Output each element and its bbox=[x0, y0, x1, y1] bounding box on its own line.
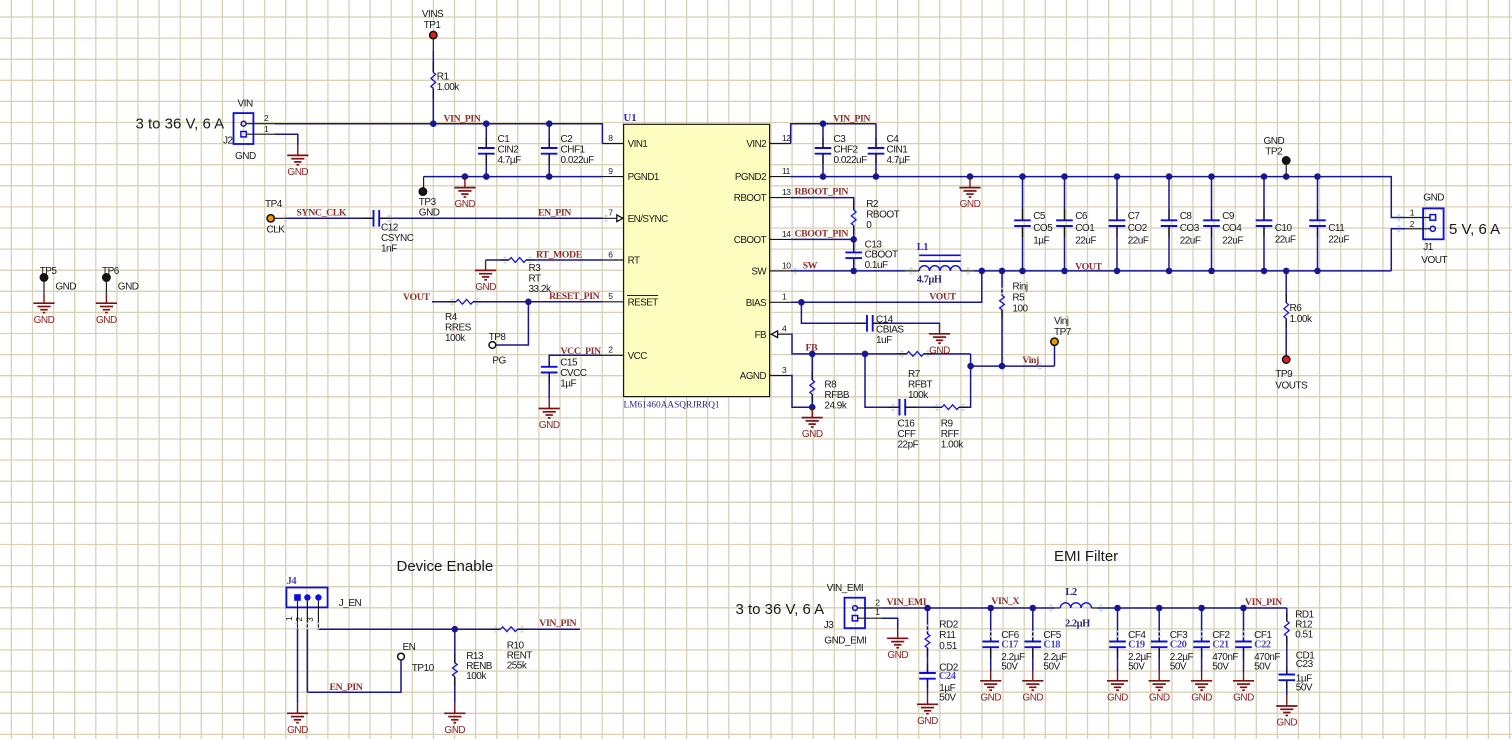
ground below R8 bbox=[811, 407, 813, 417]
capacitor C18 CF5 bbox=[1030, 605, 1037, 612]
svg-text:CVCC: CVCC bbox=[560, 368, 587, 379]
svg-text:255k: 255k bbox=[507, 661, 528, 672]
node marker bbox=[388, 215, 391, 222]
wire R1 to VIN rail bbox=[432, 88, 434, 123]
svg-text:FB: FB bbox=[755, 330, 767, 341]
node marker bbox=[1242, 631, 1245, 638]
wire lead bbox=[379, 217, 390, 219]
junction enable node bbox=[452, 626, 459, 633]
svg-text:VIN_X: VIN_X bbox=[991, 596, 1019, 607]
svg-text:CFF: CFF bbox=[898, 429, 916, 440]
capacitor C7 bbox=[1116, 177, 1118, 221]
U1 pin 5 RESET stub bbox=[602, 301, 623, 303]
capacitor C11 bbox=[1317, 177, 1319, 221]
svg-text:CHF2: CHF2 bbox=[834, 145, 859, 156]
svg-text:SW: SW bbox=[803, 261, 818, 272]
resistor R6 bbox=[1283, 268, 1290, 275]
svg-text:RT_MODE: RT_MODE bbox=[536, 249, 583, 260]
svg-text:Vinj: Vinj bbox=[1022, 355, 1039, 366]
svg-text:C9: C9 bbox=[1222, 211, 1235, 222]
ground below C20 bbox=[1158, 670, 1160, 680]
svg-text:GND: GND bbox=[960, 199, 981, 210]
svg-text:1nF: 1nF bbox=[381, 244, 397, 255]
svg-text:C12: C12 bbox=[381, 223, 399, 234]
connector J2 bbox=[234, 113, 254, 144]
node marker bbox=[1031, 631, 1034, 638]
svg-text:GND: GND bbox=[929, 345, 950, 356]
svg-text:GND: GND bbox=[1107, 692, 1128, 703]
J4 pin 2 wire bbox=[306, 601, 308, 629]
svg-text:3: 3 bbox=[782, 365, 787, 375]
resistor R9 RFF bbox=[942, 405, 959, 410]
svg-text:C20: C20 bbox=[1170, 639, 1187, 650]
svg-text:GND: GND bbox=[1233, 692, 1254, 703]
wire lead bbox=[853, 226, 855, 235]
svg-text:CLK: CLK bbox=[267, 225, 286, 236]
U1 pin 7 input arrow bbox=[617, 215, 623, 222]
svg-text:1µF: 1µF bbox=[560, 379, 576, 390]
wire AGND pin bbox=[791, 376, 813, 408]
ground below C21 bbox=[1201, 670, 1203, 680]
svg-text:2: 2 bbox=[875, 597, 880, 607]
U1 pin 6 RT stub bbox=[602, 259, 623, 261]
svg-text:TP2: TP2 bbox=[1265, 147, 1283, 158]
svg-text:EN_PIN: EN_PIN bbox=[330, 682, 363, 693]
wire lead bbox=[1158, 630, 1160, 642]
testpoint TP9 VOUTS bbox=[1283, 356, 1290, 363]
svg-text:VIN_PIN: VIN_PIN bbox=[1245, 597, 1282, 608]
node marker bbox=[605, 215, 608, 222]
resistor R2 RBOOT bbox=[851, 210, 856, 226]
node marker bbox=[910, 268, 913, 275]
svg-text:VINS: VINS bbox=[422, 9, 444, 20]
ground below J3 bbox=[897, 628, 899, 638]
wire lead bbox=[1211, 226, 1213, 237]
inductor L1 bbox=[919, 254, 961, 256]
svg-text:GND: GND bbox=[96, 315, 117, 326]
junction AGND node bbox=[809, 404, 816, 411]
svg-text:2: 2 bbox=[264, 113, 269, 123]
svg-text:GND: GND bbox=[1191, 692, 1212, 703]
ground below R13 bbox=[454, 703, 456, 713]
node marker bbox=[967, 268, 970, 275]
svg-text:PGND2: PGND2 bbox=[735, 172, 766, 183]
svg-text:EN: EN bbox=[403, 642, 416, 653]
svg-text:GND: GND bbox=[34, 315, 55, 326]
svg-text:R8: R8 bbox=[824, 380, 837, 391]
svg-text:J3: J3 bbox=[824, 620, 835, 631]
svg-text:GND: GND bbox=[419, 207, 440, 218]
wire lead bbox=[875, 138, 877, 148]
capacitor C14 CBIAS bbox=[866, 315, 868, 332]
ground at RT resistor bbox=[485, 260, 487, 270]
svg-text:13: 13 bbox=[782, 187, 791, 197]
svg-text:VOUTS: VOUTS bbox=[1275, 380, 1308, 391]
wire lead bbox=[500, 259, 509, 261]
svg-text:6: 6 bbox=[608, 249, 613, 259]
svg-text:22uF: 22uF bbox=[1222, 235, 1243, 246]
svg-text:50V: 50V bbox=[1170, 661, 1187, 672]
svg-text:22pF: 22pF bbox=[898, 440, 919, 451]
svg-text:VOUT: VOUT bbox=[1075, 261, 1102, 272]
wire R7 to Vinj node bbox=[971, 354, 1055, 366]
svg-text:RFBT: RFBT bbox=[908, 380, 933, 391]
wire lead bbox=[1001, 310, 1003, 318]
U1 pin 1 BIAS stub bbox=[770, 301, 791, 303]
wire EMI rail left bbox=[882, 607, 1055, 609]
svg-text:L2: L2 bbox=[1065, 587, 1077, 598]
wire lead bbox=[927, 664, 929, 673]
node marker bbox=[927, 351, 930, 358]
svg-text:C21: C21 bbox=[1212, 639, 1229, 650]
svg-text:C18: C18 bbox=[1043, 639, 1060, 650]
svg-text:RRES: RRES bbox=[445, 323, 472, 334]
wire lead bbox=[1022, 209, 1024, 220]
wire lead bbox=[1263, 209, 1265, 220]
wire lead bbox=[811, 372, 813, 380]
svg-text:50V: 50V bbox=[1254, 661, 1271, 672]
junction FB bbox=[809, 351, 816, 358]
svg-text:C3: C3 bbox=[834, 134, 847, 145]
svg-text:R7: R7 bbox=[908, 369, 921, 380]
wire lead bbox=[924, 353, 933, 355]
U1 pin 7 EN/SYNC stub bbox=[602, 217, 623, 219]
node marker bbox=[1398, 225, 1401, 232]
svg-text:0: 0 bbox=[866, 220, 872, 231]
svg-text:C2: C2 bbox=[561, 134, 574, 145]
wire lead bbox=[485, 138, 487, 148]
svg-text:VOUT: VOUT bbox=[1421, 255, 1447, 266]
resistor R12 RD1 chain bbox=[1286, 608, 1288, 621]
ground below TP6 bbox=[105, 293, 107, 303]
svg-text:GND: GND bbox=[55, 282, 76, 293]
node marker bbox=[495, 626, 498, 633]
J2 pin 2 stub bbox=[246, 123, 275, 125]
svg-text:VIN_EMI: VIN_EMI bbox=[887, 597, 927, 608]
svg-text:TP9: TP9 bbox=[1275, 369, 1293, 380]
U1 pin 4 FB arrow bbox=[772, 331, 778, 338]
svg-text:3 to 36 V, 6 A: 3 to 36 V, 6 A bbox=[136, 116, 225, 133]
svg-text:LM61460AASQRJRRQ1: LM61460AASQRJRRQ1 bbox=[624, 401, 720, 411]
J1 pin 2 stub bbox=[1405, 228, 1430, 230]
svg-text:0.022uF: 0.022uF bbox=[834, 155, 868, 166]
wire lead bbox=[1317, 209, 1319, 220]
resistor R7 RFBT bbox=[865, 353, 907, 355]
wire lead bbox=[927, 625, 929, 634]
svg-text:RFF: RFF bbox=[941, 429, 959, 440]
svg-text:100k: 100k bbox=[445, 333, 466, 344]
svg-text:RD2: RD2 bbox=[939, 619, 958, 630]
svg-text:TP4: TP4 bbox=[265, 199, 283, 210]
capacitor C12 CSYNC bbox=[373, 210, 375, 227]
svg-text:GND: GND bbox=[1022, 692, 1043, 703]
node marker bbox=[476, 298, 479, 305]
wire lead bbox=[1201, 647, 1203, 658]
svg-text:RBOOT: RBOOT bbox=[734, 193, 767, 204]
svg-text:50V: 50V bbox=[1043, 661, 1060, 672]
svg-text:R4: R4 bbox=[445, 312, 458, 323]
svg-text:R5: R5 bbox=[1012, 293, 1025, 304]
svg-text:RBOOT_PIN: RBOOT_PIN bbox=[795, 186, 849, 197]
wire lead bbox=[548, 361, 550, 367]
svg-text:TP3: TP3 bbox=[419, 197, 437, 208]
resistor R13 RENB bbox=[454, 629, 456, 663]
svg-text:0.1uF: 0.1uF bbox=[865, 260, 888, 271]
svg-text:J_EN: J_EN bbox=[339, 598, 362, 609]
wire lead bbox=[1168, 226, 1170, 237]
wire R2 to CBOOT node bbox=[853, 226, 855, 240]
ground below C24 bbox=[927, 694, 929, 704]
svg-text:GND_EMI: GND_EMI bbox=[824, 636, 866, 647]
ground below J2 bbox=[297, 145, 299, 155]
testpoint TP3 GND bbox=[423, 177, 425, 188]
svg-text:C19: C19 bbox=[1128, 639, 1145, 650]
svg-text:J2: J2 bbox=[223, 136, 234, 147]
ground below C23 bbox=[1286, 696, 1288, 706]
node marker bbox=[1398, 214, 1401, 221]
wire lead bbox=[1243, 630, 1245, 642]
capacitor C17 CF6 bbox=[987, 605, 994, 612]
node marker bbox=[926, 625, 929, 632]
svg-text:C4: C4 bbox=[887, 134, 900, 145]
ground below C15 bbox=[548, 398, 550, 408]
wire lead bbox=[1158, 647, 1160, 658]
junction R1/VIN bbox=[430, 120, 437, 127]
inductor L2 bbox=[1055, 607, 1060, 609]
wire lead bbox=[548, 138, 550, 148]
wire PGND2 rail bbox=[791, 177, 1405, 218]
svg-text:TP1: TP1 bbox=[424, 20, 442, 31]
wire lead bbox=[897, 353, 907, 355]
U1 pin 13 RBOOT stub bbox=[770, 197, 791, 199]
wire lead bbox=[1285, 319, 1287, 327]
svg-text:EMI Filter: EMI Filter bbox=[1054, 548, 1118, 565]
svg-text:CBOOT: CBOOT bbox=[734, 235, 767, 246]
resistor R10 RENT bbox=[455, 628, 501, 630]
wire VIN2 to VIN_PIN rail bbox=[791, 124, 876, 144]
wire lead bbox=[491, 628, 501, 630]
svg-text:Rinj: Rinj bbox=[1012, 282, 1028, 293]
wire lead bbox=[990, 647, 992, 658]
svg-text:50V: 50V bbox=[1128, 661, 1145, 672]
svg-text:VIN: VIN bbox=[238, 99, 253, 110]
wire C15 to ground bbox=[548, 373, 550, 399]
svg-text:R9: R9 bbox=[941, 419, 954, 430]
wire lead bbox=[853, 201, 855, 210]
svg-text:RT: RT bbox=[529, 274, 542, 285]
wire lead bbox=[1211, 209, 1213, 220]
wire lead bbox=[875, 154, 877, 164]
U1 pin 2 VCC stub bbox=[602, 354, 623, 356]
testpoint TP2 GND bbox=[1283, 173, 1290, 180]
svg-text:RFBB: RFBB bbox=[824, 390, 850, 401]
wire lead bbox=[1286, 636, 1288, 645]
U1 pin 14 CBOOT stub bbox=[770, 238, 791, 240]
wire lead bbox=[548, 154, 550, 164]
wire VOUT to R4 bbox=[432, 301, 456, 303]
node marker bbox=[1039, 363, 1042, 370]
svg-text:C17: C17 bbox=[1001, 639, 1018, 650]
wire lead bbox=[905, 406, 917, 408]
junction CBOOT node bbox=[850, 236, 857, 243]
wire lead bbox=[548, 373, 550, 384]
svg-text:0.022uF: 0.022uF bbox=[561, 155, 595, 166]
wire lead bbox=[1001, 287, 1003, 295]
svg-text:50V: 50V bbox=[939, 693, 956, 704]
node marker bbox=[794, 268, 797, 275]
capacitor C10 bbox=[1263, 177, 1265, 221]
J4 pin 3 wire bbox=[317, 601, 319, 629]
wire lead bbox=[1116, 226, 1118, 237]
U1 pin 9 PGND1 stub bbox=[602, 176, 623, 178]
node marker bbox=[1100, 605, 1103, 612]
wire lead bbox=[959, 406, 968, 408]
wire R4 to RESET pin bbox=[473, 301, 602, 303]
svg-text:1.00k: 1.00k bbox=[1290, 314, 1313, 325]
svg-text:L1: L1 bbox=[917, 242, 929, 253]
wire lead bbox=[1032, 630, 1034, 642]
node marker bbox=[504, 257, 507, 264]
wire C14 to ground bbox=[872, 322, 940, 324]
svg-text:RT: RT bbox=[628, 256, 640, 267]
svg-text:VIN_PIN: VIN_PIN bbox=[539, 618, 576, 629]
junction BIAS branch bbox=[798, 299, 805, 306]
node marker bbox=[1200, 631, 1203, 638]
svg-text:GND: GND bbox=[887, 650, 908, 661]
svg-text:R6: R6 bbox=[1290, 303, 1303, 314]
capacitor C4 CIN1 bbox=[875, 124, 877, 148]
ground below TP5 bbox=[43, 293, 45, 303]
resistor R5 Rinj bbox=[999, 268, 1006, 275]
svg-text:CO2: CO2 bbox=[1128, 223, 1148, 234]
svg-text:100: 100 bbox=[1012, 304, 1028, 315]
wire R9 up to Vinj node bbox=[959, 366, 971, 407]
U1 pin 12 VIN2 stub bbox=[770, 143, 791, 145]
svg-text:CIN1: CIN1 bbox=[887, 145, 909, 156]
node marker bbox=[1001, 288, 1004, 295]
svg-text:C10: C10 bbox=[1275, 223, 1293, 234]
svg-text:4.7µF: 4.7µF bbox=[498, 155, 522, 166]
wire VIN rail bbox=[275, 124, 602, 144]
svg-text:C1: C1 bbox=[498, 134, 511, 145]
wire lead bbox=[1286, 613, 1288, 621]
node marker bbox=[521, 626, 524, 633]
testpoint TP7 Vinj bbox=[1054, 346, 1056, 367]
wire RBOOT pin to R2 bbox=[791, 198, 854, 210]
capacitor C5 bbox=[1022, 177, 1024, 221]
svg-text:C11: C11 bbox=[1328, 223, 1345, 234]
svg-text:7: 7 bbox=[608, 208, 613, 218]
svg-text:GND: GND bbox=[475, 282, 496, 293]
svg-text:1: 1 bbox=[875, 607, 880, 617]
svg-text:GND: GND bbox=[1264, 136, 1285, 147]
wire lead bbox=[1285, 294, 1287, 303]
capacitor C21 CF2 bbox=[1198, 605, 1205, 612]
node marker bbox=[989, 631, 992, 638]
J4 pin 1 wire bbox=[297, 601, 299, 629]
svg-text:TP7: TP7 bbox=[1054, 327, 1072, 338]
svg-text:C22: C22 bbox=[1254, 639, 1271, 650]
svg-text:5: 5 bbox=[608, 291, 613, 301]
junction FB2 bbox=[862, 351, 869, 358]
wire TP1 to R1 bbox=[432, 39, 434, 51]
svg-text:22uF: 22uF bbox=[1075, 235, 1096, 246]
node marker bbox=[529, 257, 532, 264]
wire J2 pin1 to ground bbox=[275, 134, 298, 145]
svg-text:4: 4 bbox=[782, 324, 787, 334]
capacitor C2 CHF1 bbox=[548, 124, 550, 148]
svg-text:C7: C7 bbox=[1128, 211, 1141, 222]
wire lead bbox=[432, 88, 434, 99]
wire lead bbox=[1022, 226, 1024, 237]
resistor R3 RT bbox=[509, 258, 526, 263]
wire lead bbox=[473, 301, 482, 303]
svg-text:CO1: CO1 bbox=[1075, 223, 1095, 234]
wire RT ground to R3 bbox=[486, 259, 509, 261]
svg-text:U1: U1 bbox=[624, 112, 637, 124]
J3 pin 2 stub bbox=[857, 607, 882, 609]
svg-text:Vinj: Vinj bbox=[1054, 316, 1069, 327]
wire lead bbox=[447, 301, 456, 303]
wire lead bbox=[1286, 680, 1288, 689]
svg-text:8: 8 bbox=[608, 133, 613, 143]
svg-text:VIN_EMI: VIN_EMI bbox=[827, 583, 864, 594]
svg-text:J1: J1 bbox=[1423, 242, 1434, 253]
wire lead bbox=[856, 322, 867, 324]
svg-text:CO4: CO4 bbox=[1222, 223, 1242, 234]
capacitor C13 CBOOT bbox=[853, 239, 855, 252]
svg-text:22uF: 22uF bbox=[1128, 235, 1149, 246]
svg-text:GND: GND bbox=[917, 716, 938, 727]
wire lead bbox=[1117, 647, 1119, 658]
svg-text:RESET: RESET bbox=[628, 297, 659, 308]
node marker bbox=[1050, 605, 1053, 612]
svg-text:VOUT: VOUT bbox=[929, 291, 956, 302]
wire lead bbox=[933, 406, 942, 408]
svg-text:GND: GND bbox=[287, 725, 308, 736]
ground below C18 bbox=[1032, 670, 1034, 680]
wire lead bbox=[485, 154, 487, 164]
svg-text:TP10: TP10 bbox=[412, 663, 435, 674]
svg-text:EN_PIN: EN_PIN bbox=[538, 207, 571, 218]
svg-text:3 to 36 V, 6 A: 3 to 36 V, 6 A bbox=[736, 601, 825, 618]
wire lead bbox=[822, 138, 824, 148]
svg-text:GND: GND bbox=[287, 167, 308, 178]
junction RESET/TP8 bbox=[525, 299, 532, 306]
svg-text:CO5: CO5 bbox=[1033, 223, 1053, 234]
wire EMI rail right bbox=[1097, 607, 1287, 609]
svg-text:R3: R3 bbox=[529, 263, 542, 274]
svg-text:VCC: VCC bbox=[628, 351, 648, 362]
wire lead bbox=[526, 259, 535, 261]
wire lead bbox=[362, 217, 374, 219]
svg-text:50V: 50V bbox=[1296, 683, 1313, 694]
wire lead bbox=[454, 654, 456, 663]
svg-text:BIAS: BIAS bbox=[746, 298, 767, 309]
svg-text:GND: GND bbox=[455, 199, 476, 210]
svg-text:0.51: 0.51 bbox=[939, 641, 957, 652]
svg-text:22uF: 22uF bbox=[1275, 234, 1296, 245]
svg-text:10: 10 bbox=[782, 260, 791, 270]
svg-text:VIN_PIN: VIN_PIN bbox=[444, 114, 481, 125]
svg-text:1: 1 bbox=[782, 292, 787, 302]
wire lead bbox=[1243, 647, 1245, 658]
svg-text:GND: GND bbox=[802, 429, 823, 440]
svg-text:GND: GND bbox=[980, 692, 1001, 703]
wire lead bbox=[1117, 630, 1119, 642]
wire to TP8 bbox=[497, 302, 529, 345]
svg-text:9: 9 bbox=[608, 166, 613, 176]
